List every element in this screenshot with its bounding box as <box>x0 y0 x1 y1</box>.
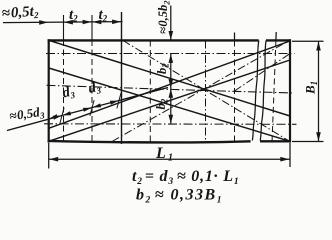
plate outline: bottom edge right segment <box>260 140 291 142</box>
arrowhead 0.5b2 down at top edge <box>169 31 174 40</box>
B1 extension top <box>292 40 324 42</box>
L1 extension left <box>48 143 50 169</box>
diagonal S3 left edge to top-right corner <box>49 41 290 128</box>
rivet row 3 vertical x=121.5 <box>121 12 123 144</box>
arrowhead b2 down tip at 88.3 <box>169 79 174 88</box>
arrowhead t2 right tip at 121.5 pointing right <box>112 20 121 25</box>
dash-dot diagonal DD1 bottom edge to top-right corner <box>112 40 290 142</box>
arrowhead 0.5d3 pointing up-right at left edge <box>53 116 62 120</box>
diagonal S1 top-left corner to right edge <box>49 40 290 116</box>
b2 dimension line main segment <box>170 54 172 124</box>
dash-dot diagonal DD2 top edge to bottom-right corner <box>123 41 290 142</box>
top dimension line t2 <box>3 22 123 23</box>
B1 dimension line <box>318 41 320 141</box>
svg-text:B1: B1 <box>303 81 320 95</box>
break line wavy 1 <box>252 41 258 141</box>
plate outline: right edge <box>289 39 291 142</box>
diagonal S2 bottom-left corner to right edge <box>49 60 290 141</box>
plate outline: bottom edge left segment <box>48 141 251 143</box>
plate outline: left edge <box>48 39 50 142</box>
d3 tick 3 <box>117 93 121 109</box>
diagonal S5 left edge to bottom-right corner <box>49 68 290 141</box>
rivet row 2 dashed vertical x=92 <box>91 15 93 40</box>
arrowhead b2 up tip at 53.7 <box>169 54 174 63</box>
svg-text:b2≈ 0,33B1: b2≈ 0,33B1 <box>136 187 223 206</box>
rivet row 1 dashed vertical x=63.5 <box>63 15 65 40</box>
arrowhead d3 span2 right tip <box>110 101 119 105</box>
break line wavy 2 <box>260 41 266 141</box>
arrowhead B1 bottom tip <box>316 132 321 141</box>
svg-text:≈0,5b2: ≈0,5b2 <box>156 0 172 34</box>
arrowhead 0.5t2 at x=48.7 pointing right <box>39 20 48 25</box>
svg-text:L1: L1 <box>155 145 175 164</box>
d3 tick 1 <box>60 108 64 124</box>
L1 dimension line <box>49 158 290 160</box>
arrowhead L1 right tip <box>280 157 289 162</box>
arrowhead d3 span2 left tip <box>92 103 101 107</box>
svg-text:b2: b2 <box>155 63 171 74</box>
row vertical x=276.5 with stub above edge <box>275 32 277 41</box>
lower stiffener axis dash-dot y=124 <box>44 123 297 126</box>
arrowhead L1 left tip <box>49 157 58 162</box>
svg-text:t2: t2 <box>69 7 78 24</box>
centre row dash-dot vertical x=205.5 <box>205 41 207 142</box>
svg-text:t2= d3≈ 0,1· L1: t2= d3≈ 0,1· L1 <box>132 168 239 187</box>
arrowhead 0.5d3 at left edge pointing down-left <box>49 114 57 119</box>
d3 tick 2 <box>90 100 94 116</box>
svg-text:t2: t2 <box>99 7 108 24</box>
B1 extension bottom <box>292 141 324 143</box>
arrowhead t2 at 92 pointing left <box>92 20 101 25</box>
dash-dot diagonal right panel <box>235 54 291 92</box>
b2 dimension line upper segment with 0.5b2 pointer <box>170 6 172 41</box>
arrowhead d3 span1 right tip <box>83 108 92 112</box>
d3 rivet diagonal line <box>7 88 168 131</box>
row vertical x=234.5 with stub above edge <box>234 33 236 41</box>
plate outline: top edge right segment <box>266 39 291 41</box>
centre axis dash-dot <box>47 85 295 93</box>
arrowhead t2 at 92 pointing right <box>83 20 92 25</box>
plate outline: top edge left segment <box>48 39 259 41</box>
rivet row 4 dashed vertical x=150.3 <box>149 41 151 142</box>
svg-text:≈0,5t2: ≈0,5t2 <box>1 3 39 22</box>
arrowhead b2 up tip at 88.3 <box>169 89 174 98</box>
upper stiffener axis dash-dot y=53.5 <box>46 53 295 55</box>
arrowhead b2 down tip at 124 <box>169 115 174 124</box>
L1 extension right <box>289 143 291 167</box>
arrowhead d3 span1 left tip <box>62 111 71 115</box>
arrowhead B1 top tip <box>316 42 321 51</box>
arrowhead t2 left tip at 63.5 pointing left <box>64 20 73 25</box>
